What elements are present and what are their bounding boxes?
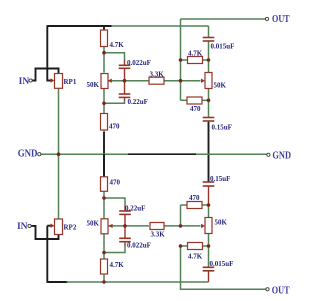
svg-text:OUT: OUT [272,14,290,25]
svg-text:RP1: RP1 [64,78,77,86]
svg-text:470: 470 [109,123,120,131]
svg-text:RP2: RP2 [64,224,77,232]
svg-text:GND: GND [18,148,38,159]
svg-text:50K: 50K [214,82,227,90]
svg-text:0.15uF: 0.15uF [210,175,230,183]
svg-text:0.015uF: 0.015uF [210,260,234,268]
svg-text:OUT: OUT [272,286,290,297]
svg-text:50K: 50K [86,81,99,89]
svg-text:4.7K: 4.7K [110,261,125,269]
svg-text:0.22uF: 0.22uF [128,98,148,106]
svg-text:470: 470 [110,179,121,187]
svg-text:50K: 50K [215,219,228,227]
svg-text:0.015uF: 0.015uF [211,43,235,51]
svg-text:4.7K: 4.7K [188,253,203,261]
svg-text:470: 470 [189,194,200,202]
svg-text:0.22uF: 0.22uF [125,204,145,212]
svg-text:0.15uF: 0.15uF [212,124,232,132]
svg-text:4.7K: 4.7K [110,41,125,49]
svg-text:IN: IN [17,222,28,232]
svg-text:4.7K: 4.7K [188,50,203,58]
svg-text:50K: 50K [87,220,100,228]
svg-text:470: 470 [190,105,201,113]
svg-text:3.3K: 3.3K [151,231,166,239]
svg-text:3.3K: 3.3K [150,70,165,78]
svg-text:0.022uF: 0.022uF [127,242,151,250]
svg-text:IN: IN [19,77,30,87]
svg-text:GND: GND [272,150,291,161]
svg-text:0.022uF: 0.022uF [127,59,151,67]
